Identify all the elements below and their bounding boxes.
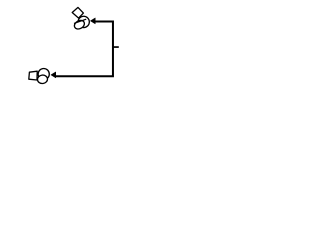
top device: tilted ellipse lobe xyxy=(73,19,86,31)
bottom device: big circle xyxy=(38,69,49,80)
arrowhead into bottom device xyxy=(51,72,56,78)
wire from bus to top device and down to bottom device xyxy=(56,22,113,77)
top device: rotated square tab xyxy=(72,7,83,18)
arrowhead into top device xyxy=(91,18,96,24)
bottom device: tilted ellipse lobe xyxy=(37,75,48,85)
bottom device: square tab xyxy=(29,71,37,80)
top device: interior edge line xyxy=(74,19,86,23)
top device: big circle xyxy=(78,16,89,27)
tick stub on vertical bus xyxy=(113,46,119,48)
